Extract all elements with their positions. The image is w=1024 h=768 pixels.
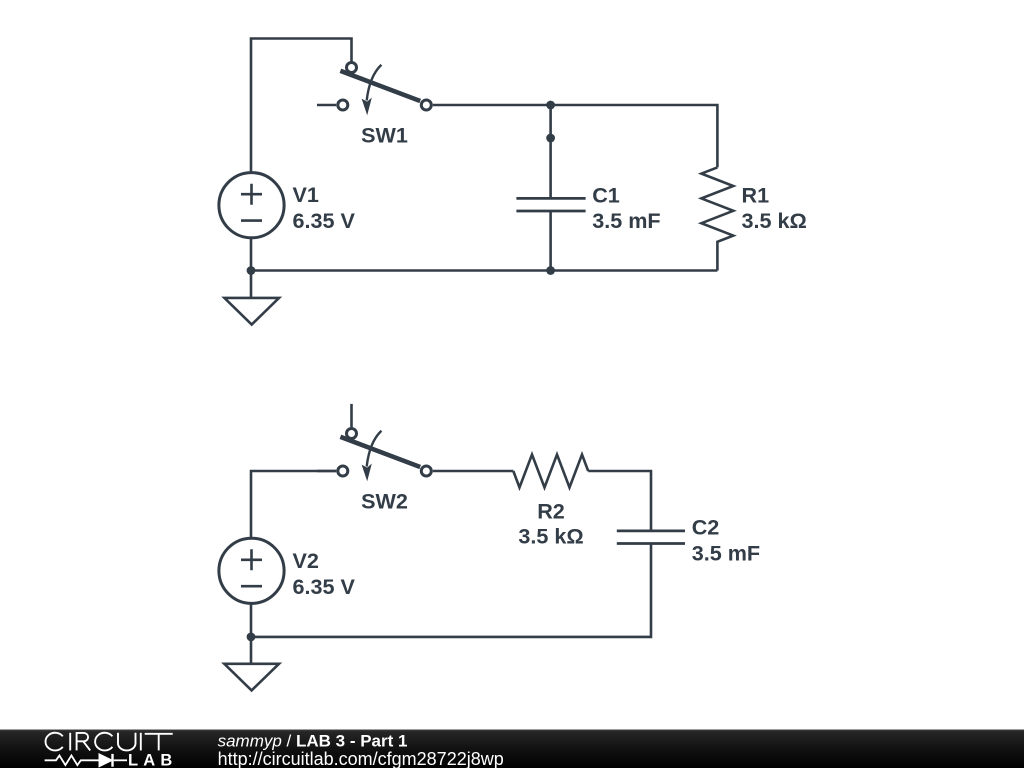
svg-text:sammyp / LAB 3 - Part 1: sammyp / LAB 3 - Part 1 [218,732,408,751]
wire V1- down to ground [250,238,253,298]
node dot junction top [546,101,555,110]
voltage source V2 [219,538,284,603]
switch SW1 [317,63,431,116]
svg-text:3.5 kΩ: 3.5 kΩ [518,524,583,549]
svg-text:3.5 mF: 3.5 mF [592,208,660,233]
switch SW2 [317,429,431,482]
resistor R2 [513,455,588,488]
wire SW1 common to node A and R1 top [433,105,718,167]
svg-text:R1: R1 [742,182,770,207]
resistor R1 [701,167,733,270]
svg-text:C1: C1 [592,182,620,207]
wire bottom net to C2 [251,544,651,637]
svg-text:3.5 kΩ: 3.5 kΩ [742,208,807,233]
ground circuit 1 [224,298,279,325]
ground circuit 2 [224,664,279,691]
wire node A down to C1 top [549,105,552,198]
node dot bottom V2 [247,633,256,642]
wire SW2 common to R2 [433,470,514,473]
svg-text:http://circuitlab.com/cfgm2872: http://circuitlab.com/cfgm28722j8wp [218,749,504,768]
wire V1+ to SW1 top terminal [251,39,352,173]
svg-text:SW2: SW2 [361,489,408,514]
svg-text:V2: V2 [293,548,319,573]
wire C1 bottom to bottom net [549,211,552,271]
capacitor C2 [617,531,685,544]
voltage source V1 [219,173,284,238]
svg-text:R2: R2 [537,498,565,523]
svg-text:C2: C2 [692,515,720,540]
capacitor C1 [516,198,585,211]
wire C2 top to R2 [588,471,651,531]
wire V2- down to ground [250,603,253,664]
svg-text:SW1: SW1 [361,123,408,148]
wire SW2 left terminal to V2+ [251,471,336,538]
logo CIRCUIT lettering [46,733,173,751]
svg-text:6.35 V: 6.35 V [293,574,356,599]
svg-text:V1: V1 [293,182,319,207]
node dot bottom C1 [546,266,555,275]
wire bottom net [251,269,717,272]
logo resistor-diode symbol [45,754,127,767]
svg-text:LAB: LAB [128,752,178,768]
svg-text:6.35 V: 6.35 V [293,208,356,233]
node dot bottom V1 [247,266,256,275]
stub SW2 top terminal [350,404,353,427]
svg-text:3.5 mF: 3.5 mF [692,541,760,566]
node dot mid wire [546,134,555,143]
